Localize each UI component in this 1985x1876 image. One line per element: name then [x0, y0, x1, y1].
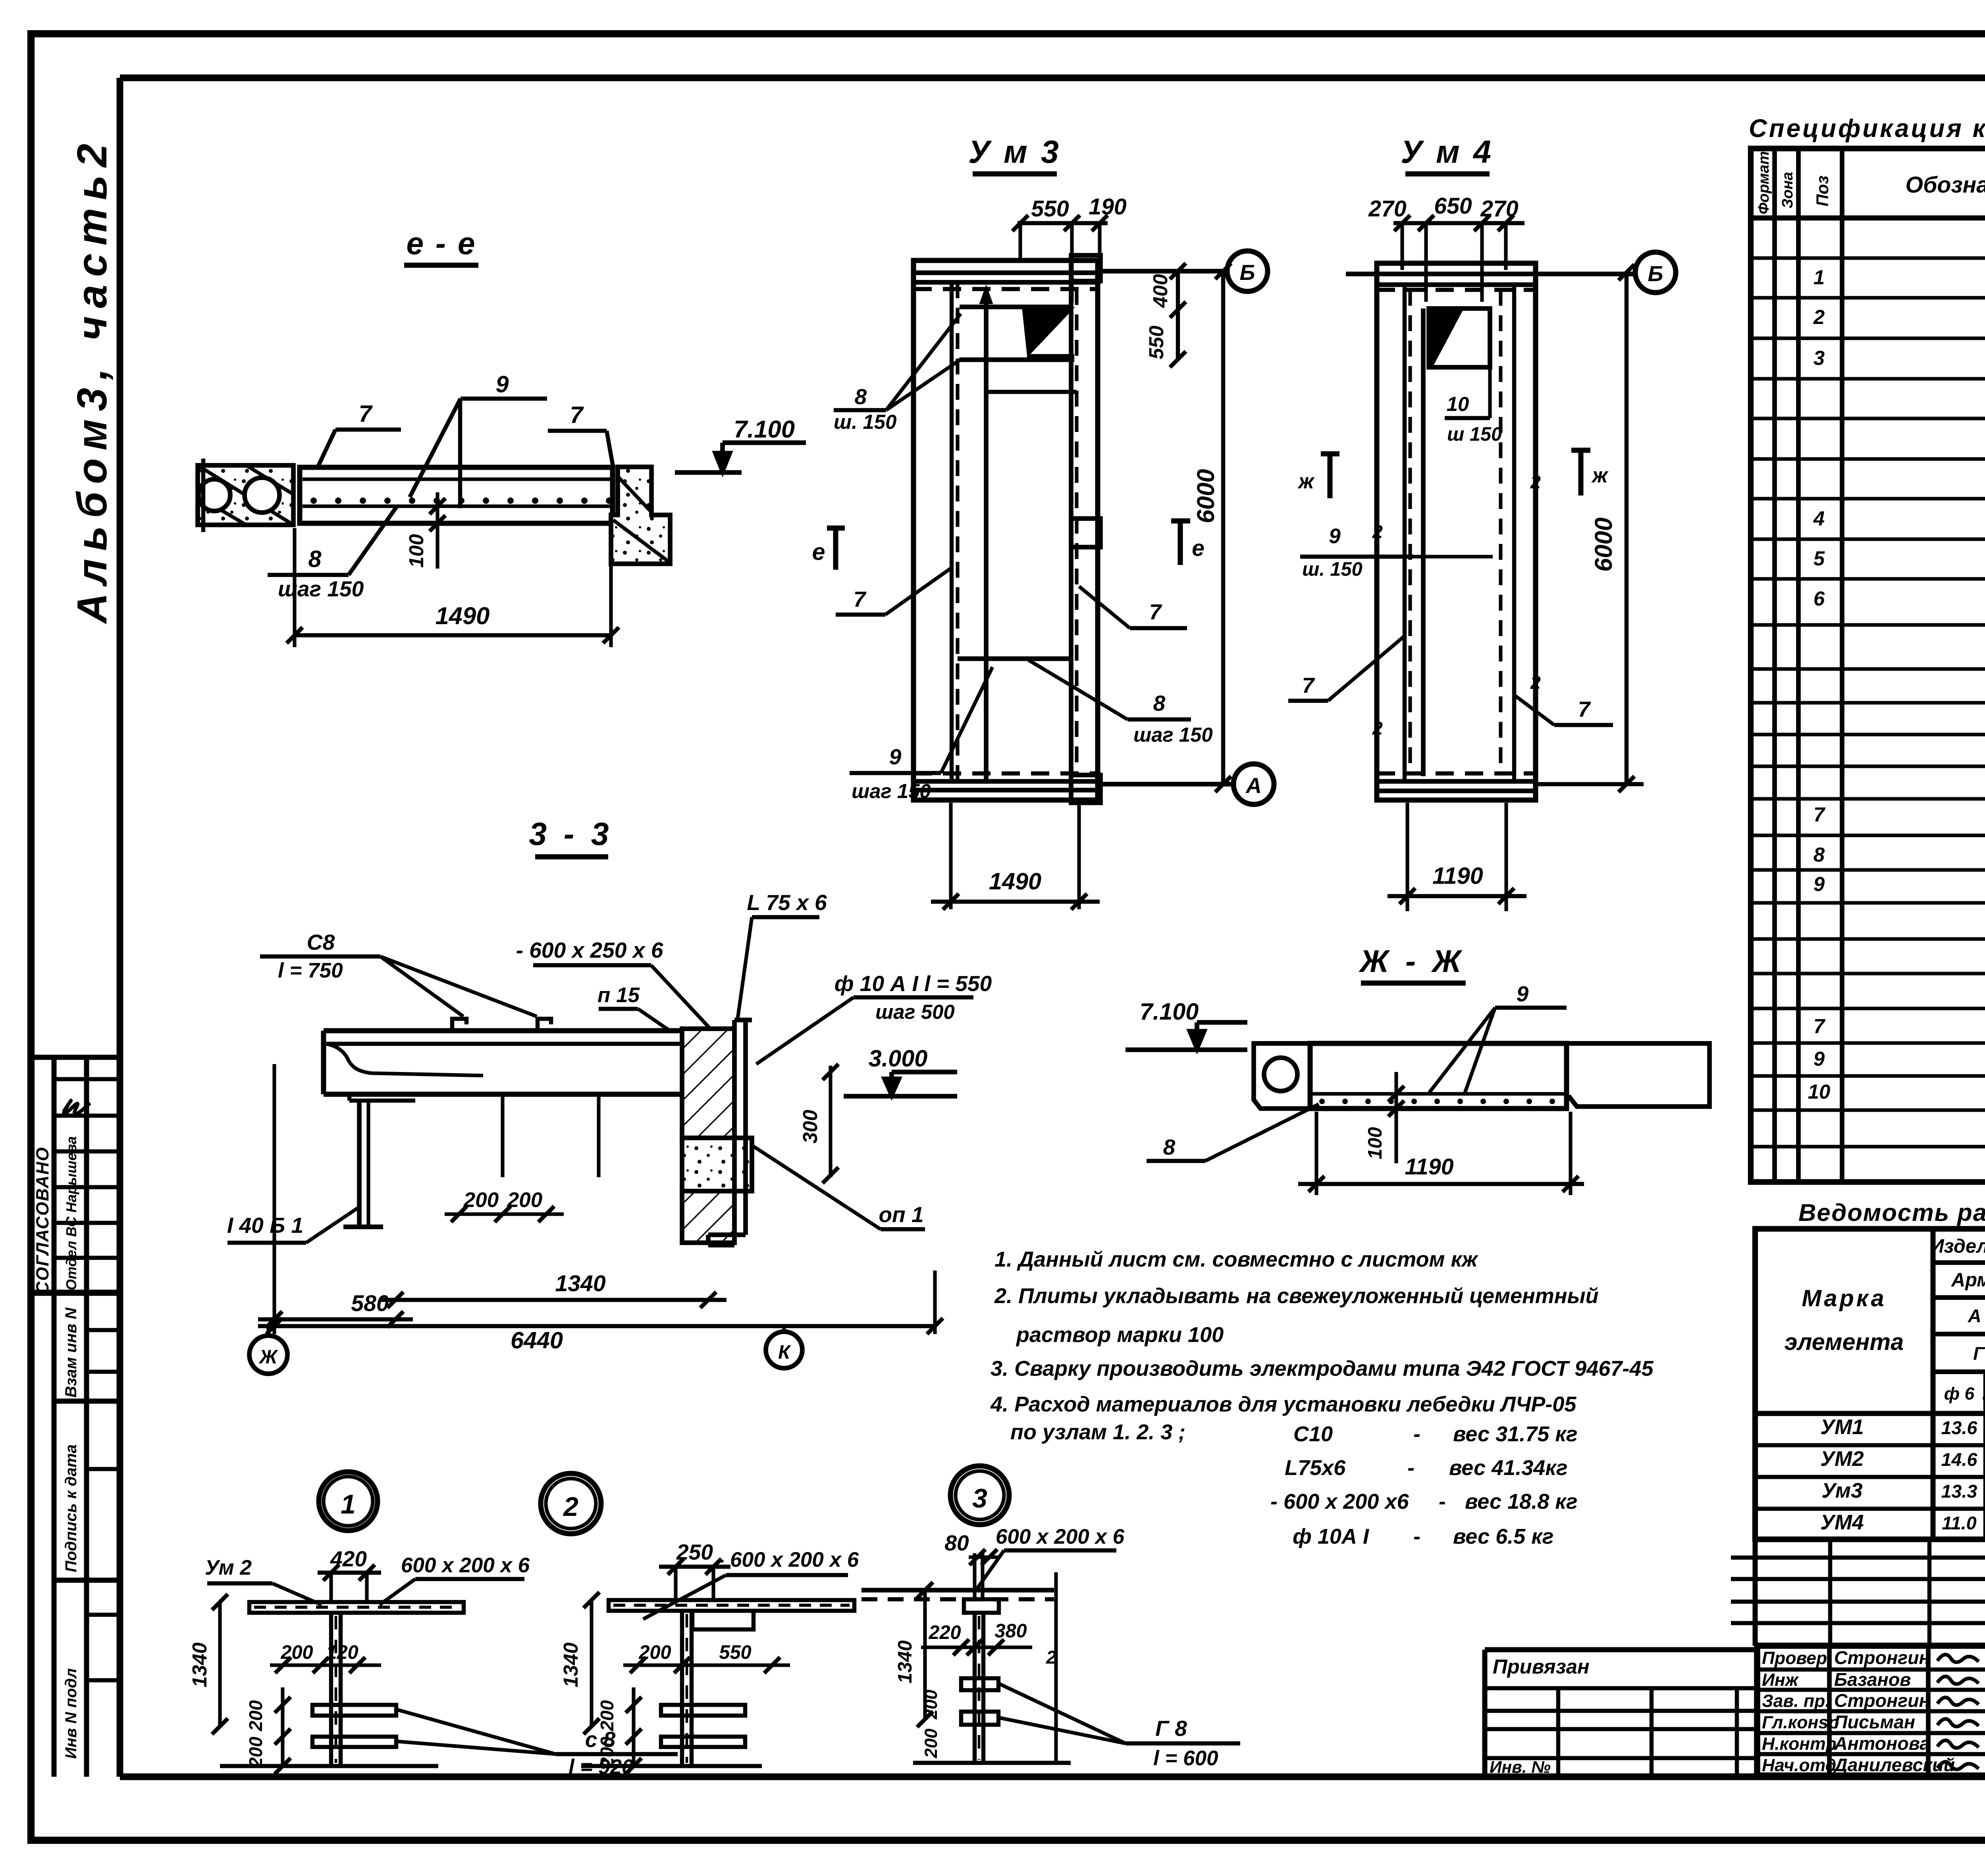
left margin stamp row divider [54, 1077, 120, 1081]
svg-text:3.000: 3.000 [869, 1045, 928, 1072]
svg-text:1340: 1340 [894, 1641, 916, 1683]
specification table column line [1772, 148, 1777, 1182]
specification table row line [1751, 1041, 1985, 1045]
title block column line [1926, 1646, 1931, 1776]
specification table frame [1751, 148, 1985, 1182]
specification table row line [1751, 296, 1985, 299]
svg-text:Провер.: Провер. [1762, 1648, 1832, 1668]
zh-zh right continuing slab [1569, 1043, 1709, 1107]
detail circle 2 [541, 1473, 601, 1534]
3-3 anchor rods below slab [501, 1096, 504, 1177]
svg-text:8: 8 [1153, 691, 1166, 715]
Um3 middle horizontal line [958, 656, 1071, 661]
specification table row line [1751, 833, 1985, 837]
svg-text:600 x 200 x 6: 600 x 200 x 6 [401, 1554, 530, 1577]
svg-text:7.100: 7.100 [734, 416, 795, 443]
detail 3 anchor plate lower [961, 1712, 998, 1725]
detail 2 anchor plate upper [661, 1705, 745, 1716]
detail 2 bracket under plate [692, 1611, 754, 1629]
svg-text:550: 550 [1145, 326, 1168, 359]
svg-text:3: 3 [1813, 347, 1825, 369]
svg-text:120: 120 [326, 1642, 358, 1663]
detail 3 right extension line [1054, 1572, 1058, 1763]
svg-text:С10: С10 [1293, 1422, 1333, 1446]
specification table row line [1751, 764, 1985, 768]
svg-text:Данилевский: Данилевский [1833, 1755, 1955, 1775]
section mark e between views [833, 528, 838, 570]
e-e slab top flange line [303, 477, 610, 481]
svg-text:220: 220 [928, 1622, 961, 1643]
specification table row line [1751, 537, 1985, 541]
title block row line [1757, 1668, 1985, 1672]
Um3 dim 1490 bottom [949, 803, 952, 909]
detail 3 anchor plate upper [961, 1678, 998, 1690]
Um3 right channel middle block [1071, 519, 1100, 547]
dim 100 vertical e-e [436, 492, 439, 569]
svg-text:оп 1: оп 1 [879, 1202, 923, 1227]
svg-text:8: 8 [1813, 843, 1825, 866]
svg-text:е - е: е - е [407, 226, 477, 261]
Um3 bottom band lines [913, 779, 1098, 784]
svg-text:Зона: Зона [1779, 172, 1796, 208]
Um4 section mark zh right [1578, 450, 1584, 496]
svg-text:Арматура класса: Арматура класса [1951, 1269, 1985, 1291]
vedomost marka column line [1931, 1229, 1936, 1539]
svg-text:Спецификация к монолитным: Спецификация к монолитным участкам Ум1 ÷… [1749, 114, 1985, 143]
title block row line [1757, 1688, 1985, 1692]
svg-text:l = 750: l = 750 [278, 959, 343, 982]
svg-text:ж: ж [1297, 470, 1315, 493]
Um3 center rebar vertical [984, 294, 989, 781]
svg-text:Ум3: Ум3 [1821, 1479, 1862, 1502]
Um3 circle B [1227, 251, 1268, 291]
svg-text:СОГЛАСОВАНО: СОГЛАСОВАНО [33, 1147, 52, 1294]
zh-zh left block with circle [1254, 1043, 1310, 1109]
svg-text:3: 3 [972, 1484, 987, 1514]
svg-text:7: 7 [1813, 1015, 1826, 1037]
svg-text:-: - [1413, 1525, 1420, 1548]
svg-text:7: 7 [1813, 803, 1826, 826]
title block outline [1757, 1646, 1985, 1776]
specification table row line [1751, 901, 1985, 904]
signature squiggle 4 [1937, 1740, 1979, 1748]
svg-text:раствор марки 100: раствор марки 100 [1016, 1323, 1224, 1347]
Um4 left channel verticals [1403, 285, 1407, 781]
svg-text:Стронгин: Стронгин [1834, 1647, 1930, 1668]
svg-text:650: 650 [1434, 193, 1472, 219]
svg-text:Базанов: Базанов [1834, 1669, 1911, 1690]
3-3 right extension line [933, 1271, 937, 1334]
svg-text:3 - 3: 3 - 3 [529, 816, 613, 852]
svg-text:-: - [1413, 1422, 1420, 1446]
vedomost data row line [1755, 1475, 1985, 1479]
title block row line [1757, 1731, 1985, 1735]
left margin stamp vertical line c [52, 1293, 57, 1777]
svg-text:Письман: Письман [1834, 1712, 1915, 1732]
svg-text:К: К [778, 1342, 791, 1363]
svg-text:Б: Б [1648, 261, 1663, 286]
left margin stamp row divider [54, 1185, 120, 1189]
zh-zh slab rebar dots [1319, 1099, 1325, 1104]
specification table row line [1751, 416, 1985, 420]
left margin small box divider [87, 1370, 120, 1374]
svg-text:270: 270 [1368, 196, 1407, 222]
3-3 dim 300 [829, 1066, 832, 1177]
svg-text:1340: 1340 [555, 1271, 605, 1296]
svg-text:Гл.конsр: Гл.конsр [1762, 1713, 1839, 1732]
vedomost header row4 line [1933, 1369, 1985, 1374]
Um4 dim 1190 [1405, 803, 1409, 911]
Um3 dashed line top [913, 287, 1098, 291]
svg-text:11.0: 11.0 [1942, 1513, 1976, 1533]
specification table row line [1751, 937, 1985, 941]
svg-text:1: 1 [1813, 266, 1825, 289]
3-3 right hatched column upper [682, 1029, 734, 1138]
inner drawing frame left line [117, 78, 123, 1777]
3-3 anchor loops above slab [452, 1019, 466, 1031]
svg-text:Поз: Поз [1813, 175, 1832, 206]
svg-text:14.6: 14.6 [1941, 1449, 1978, 1470]
vedomost header row2 line [1933, 1295, 1985, 1300]
detail 1 dim 1340 vertical [218, 1602, 222, 1726]
svg-text:4. Расход материалов для ус: 4. Расход материалов для установки лебед… [990, 1392, 1576, 1416]
Um3 lower inset line [986, 390, 1077, 394]
3-3 axis Zh extension line [272, 1064, 276, 1334]
svg-text:6440: 6440 [511, 1327, 563, 1353]
vedomost table frame [1755, 1229, 1985, 1539]
Um3 column outline [913, 260, 1098, 800]
e-e hollow core slab left block hatched [198, 465, 293, 525]
svg-text:7: 7 [1302, 673, 1315, 698]
svg-text:550: 550 [1031, 196, 1069, 222]
svg-text:13.3: 13.3 [1941, 1481, 1977, 1502]
svg-text:Инв N подл: Инв N подл [62, 1668, 80, 1759]
specification table row line [1751, 1006, 1985, 1010]
svg-text:А: А [1245, 773, 1262, 798]
svg-text:1340: 1340 [559, 1643, 582, 1687]
svg-text:элемента: элемента [1785, 1328, 1904, 1355]
svg-text:п 15: п 15 [597, 983, 640, 1007]
3-3 channel angle verticals [732, 1020, 737, 1245]
svg-text:1190: 1190 [1432, 862, 1483, 889]
left margin divider below podpis [54, 1578, 120, 1583]
detail 3 slab top line [861, 1588, 1054, 1593]
svg-text:Нач.отд: Нач.отд [1762, 1756, 1836, 1775]
Um4 dim 6000 [1625, 272, 1628, 784]
svg-text:8: 8 [308, 546, 321, 572]
specification table row line [1751, 868, 1985, 871]
signature squiggle 1 [1937, 1676, 1979, 1684]
svg-text:Б: Б [1239, 260, 1255, 285]
detail 1 ground line [220, 1764, 438, 1768]
zh-zh dim 100 [1394, 1072, 1398, 1163]
svg-text:шаг 150: шаг 150 [852, 780, 931, 802]
3-3 right hatched column lower [682, 1191, 734, 1243]
3-3 circle Ж axis [266, 1326, 270, 1337]
svg-text:200: 200 [597, 1737, 617, 1768]
svg-text:Обозначение: Обозначение [1906, 172, 1985, 198]
Um3 left channel vertical solid [950, 282, 954, 781]
vedomost data row line [1755, 1443, 1985, 1447]
svg-text:Марка: Марка [1802, 1285, 1886, 1311]
detail 2 vertical rod [680, 1611, 684, 1766]
Um4 leader 9 to channel [1413, 555, 1493, 558]
svg-text:по узлам 1. 2. 3 ;: по узлам 1. 2. 3 ; [1010, 1420, 1185, 1444]
3-3 slab left step [347, 1094, 351, 1101]
svg-text:300: 300 [799, 1110, 821, 1143]
Um4 black triangle box [1429, 308, 1490, 367]
Um3 dim 6000 [1221, 271, 1225, 784]
svg-text:- 600 x 250 x 6: - 600 x 250 x 6 [516, 938, 663, 962]
e-e hollow core circle 1 [198, 479, 230, 511]
specification table row line [1751, 1074, 1985, 1078]
left margin stamp row divider [54, 1221, 120, 1225]
svg-text:100: 100 [1364, 1127, 1386, 1159]
detail 2 anchor plate lower [661, 1737, 745, 1747]
svg-text:Зав. пр.: Зав. пр. [1762, 1691, 1830, 1711]
svg-text:200: 200 [921, 1728, 941, 1758]
svg-text:7: 7 [570, 401, 584, 428]
Um3 right channel verticals [1069, 260, 1073, 800]
svg-text:2. Плиты укладывать на свеже: 2. Плиты укладывать на свежеуложенный це… [994, 1284, 1599, 1308]
vedomost data row line [1755, 1507, 1985, 1511]
mini grid below vedomost [1731, 1556, 1985, 1560]
svg-text:7: 7 [1578, 697, 1591, 721]
svg-text:1490: 1490 [436, 602, 490, 630]
left margin stamp vertical line a [52, 1057, 57, 1293]
e-e slab rebar dots [310, 497, 317, 504]
Um4 dashed line top [1377, 288, 1536, 292]
e-e main slab outline [300, 467, 613, 523]
svg-text:2: 2 [1813, 306, 1825, 328]
left margin divider below vzam [54, 1399, 120, 1404]
svg-text:УМ2: УМ2 [1820, 1447, 1864, 1471]
svg-text:7.100: 7.100 [1140, 998, 1199, 1025]
left margin small box divider [87, 1467, 120, 1471]
svg-text:Формат: Формат [1755, 151, 1772, 214]
svg-text:ш. 150: ш. 150 [834, 411, 896, 433]
detail 1 top plate [249, 1602, 464, 1613]
3-3 circle К axis [782, 1326, 786, 1334]
vedomost header row1 line [1933, 1260, 1985, 1265]
detail 1 vertical rod [329, 1613, 333, 1766]
svg-text:- 600 x 200 x 6: - 600 x 200 x 6 [717, 1548, 859, 1571]
3-3 slab outline [324, 1028, 706, 1033]
Um3 section mark e with T [1178, 521, 1183, 565]
detail 1 anchor plate upper [312, 1705, 396, 1716]
3-3 angle bottom hook [708, 1232, 746, 1237]
e-e hollow core circle 2 [245, 478, 279, 513]
svg-text:9: 9 [1813, 873, 1825, 895]
svg-text:200: 200 [245, 1700, 266, 1731]
svg-text:Привязан: Привязан [1493, 1655, 1590, 1678]
specification table row line [1751, 377, 1985, 380]
inner drawing frame bottom line [120, 1774, 1985, 1780]
Um3 left channel vertical dashed [956, 282, 959, 781]
svg-text:е: е [1192, 536, 1204, 561]
svg-text:Отдел ВС Нарышева: Отдел ВС Нарышева [63, 1136, 79, 1290]
detail 3 ground line [913, 1761, 1071, 1765]
left margin small box divider [87, 1678, 120, 1682]
Um4 column outline [1377, 263, 1536, 800]
left margin stamp heavy divider [31, 1290, 120, 1296]
svg-text:шаг 500: шаг 500 [875, 1001, 955, 1023]
svg-text:Итого: Итого [1982, 1384, 1985, 1404]
vedomost header row3 line [1933, 1332, 1985, 1336]
svg-text:Ж - Ж: Ж - Ж [1358, 944, 1465, 979]
zh-zh dim 1190 [1314, 1112, 1318, 1195]
svg-text:е: е [812, 538, 825, 565]
svg-text:С8: С8 [307, 930, 335, 954]
left margin stamp grid top line [31, 1055, 120, 1060]
Um4 section mark zh left [1328, 454, 1333, 498]
svg-text:-: - [1439, 1490, 1446, 1514]
privyazan box columns [1556, 1688, 1560, 1777]
svg-text:Г 8: Г 8 [1155, 1716, 1187, 1741]
specification table row line [1751, 701, 1985, 704]
zh-zh main slab [1310, 1043, 1567, 1109]
svg-text:Стронгин: Стронгин [1834, 1690, 1930, 1711]
svg-text:1190: 1190 [1405, 1154, 1453, 1180]
svg-text:УМ1: УМ1 [1820, 1415, 1864, 1439]
svg-text:2: 2 [1372, 718, 1383, 738]
svg-text:5: 5 [1813, 547, 1825, 570]
svg-text:Альбом3, часть2: Альбом3, часть2 [69, 136, 116, 625]
detail circle 3 [950, 1466, 1009, 1525]
specification table row line [1751, 972, 1985, 975]
specification table header bottom [1751, 216, 1985, 221]
detail 2 top plate [609, 1600, 854, 1611]
svg-text:7: 7 [854, 587, 867, 611]
Um3 right channel top block [1071, 255, 1100, 281]
title block column line [1827, 1646, 1832, 1776]
Um3 right channel bottom block [1071, 775, 1100, 803]
svg-text:550: 550 [719, 1642, 751, 1663]
svg-text:ф 10А I: ф 10А I [1293, 1525, 1369, 1548]
3-3 concrete pocket [682, 1138, 752, 1191]
svg-text:6: 6 [1813, 587, 1825, 610]
svg-text:ш. 150: ш. 150 [1302, 559, 1363, 580]
svg-text:Подпись к дата: Подпись к дата [62, 1444, 80, 1572]
svg-text:6000: 6000 [1192, 469, 1220, 523]
svg-text:ф 10 А I l = 550: ф 10 А I l = 550 [834, 971, 992, 996]
svg-text:10: 10 [1447, 393, 1469, 415]
left margin small box divider [87, 1613, 120, 1617]
svg-text:Инж: Инж [1762, 1670, 1799, 1690]
detail 3 dim 1340 vertical [923, 1590, 927, 1719]
svg-text:13.6: 13.6 [1941, 1417, 1978, 1438]
svg-text:4: 4 [1813, 507, 1825, 530]
svg-text:200: 200 [921, 1689, 941, 1720]
svg-text:9: 9 [1329, 524, 1341, 548]
svg-text:9: 9 [889, 744, 902, 769]
dim 1490 e-e [293, 528, 296, 647]
svg-text:Изделия армотурные: Изделия армотурные [1930, 1236, 1985, 1257]
detail 3 plate block [964, 1599, 999, 1613]
Um3 right dims 400 550 [1176, 271, 1180, 359]
svg-text:L75x6: L75x6 [1285, 1456, 1346, 1480]
svg-text:200: 200 [597, 1700, 617, 1731]
svg-text:8: 8 [855, 384, 867, 409]
svg-text:100: 100 [405, 534, 428, 568]
vedomost subcolumn line [1983, 1372, 1985, 1539]
specification table row line [1751, 577, 1985, 580]
svg-text:9: 9 [495, 371, 509, 397]
svg-text:ж: ж [1591, 464, 1609, 487]
signature squiggle 0 [1937, 1654, 1979, 1662]
inner drawing frame top line [120, 75, 1985, 81]
svg-text:вес 31.75 кг: вес 31.75 кг [1453, 1422, 1578, 1446]
Um4 bottom band lines [1377, 779, 1536, 784]
privyazan box rows [1485, 1686, 1757, 1690]
Um4 circle B [1635, 252, 1676, 293]
svg-text:Ж: Ж [258, 1346, 278, 1368]
e-e right support block hatched [611, 467, 670, 564]
title block row line [1757, 1709, 1985, 1713]
Um4 bottom dashed [1377, 771, 1536, 775]
svg-text:вес 18.8 кг: вес 18.8 кг [1465, 1490, 1578, 1514]
svg-text:ш 150: ш 150 [1447, 424, 1502, 445]
Um4 right channel verticals [1499, 290, 1502, 773]
specification table row line [1751, 667, 1985, 671]
specification table row line [1751, 797, 1985, 800]
specification table column line [1796, 148, 1801, 1182]
svg-text:шаг 150: шаг 150 [278, 576, 364, 601]
svg-text:шаг 150: шаг 150 [1133, 723, 1213, 746]
svg-text:80: 80 [944, 1531, 969, 1555]
left margin stamp vertical line b [84, 1057, 89, 1777]
svg-text:200: 200 [280, 1642, 313, 1663]
svg-text:Антонова: Антонова [1834, 1733, 1930, 1754]
detail 2 dim 1340 vertical [590, 1600, 593, 1726]
svg-text:Инв. №: Инв. № [1490, 1758, 1551, 1776]
svg-text:Н.контр: Н.контр [1762, 1734, 1837, 1754]
detail 2 ground line [581, 1764, 762, 1768]
svg-text:У м 4: У м 4 [1401, 134, 1494, 170]
specification table column line [1840, 148, 1844, 1182]
specification table row line [1751, 1108, 1985, 1112]
svg-text:1490: 1490 [989, 868, 1041, 895]
Um3 inset box bottom lines [1027, 354, 1074, 358]
specification table row line [1751, 1145, 1985, 1148]
detail 3 rod protrusion above slab [973, 1553, 976, 1599]
Um3 circle A [1233, 764, 1274, 804]
Um3 bottom dashed line [913, 771, 1098, 775]
svg-text:580: 580 [351, 1291, 389, 1316]
svg-text:I 40 Б 1: I 40 Б 1 [227, 1213, 303, 1238]
svg-text:1. Данный лист см. совместно: 1. Данный лист см. совместно с листом кж [994, 1247, 1479, 1271]
detail 3 vertical rod [973, 1613, 977, 1763]
left margin small box divider [87, 1328, 120, 1332]
svg-text:7: 7 [358, 400, 373, 427]
svg-text:600 x 200 x 6: 600 x 200 x 6 [996, 1525, 1125, 1548]
svg-text:200: 200 [463, 1188, 499, 1212]
detail 1 anchor plate lower [312, 1737, 396, 1747]
Um3 inset box top line [960, 305, 1072, 309]
svg-text:10: 10 [1808, 1080, 1831, 1103]
Um3 line to circle B [1098, 269, 1227, 274]
svg-text:380: 380 [994, 1620, 1027, 1642]
signature squiggle 3 [1937, 1719, 1979, 1726]
svg-text:ф 6: ф 6 [1944, 1384, 1975, 1404]
svg-text:-: - [1407, 1456, 1415, 1480]
svg-text:2: 2 [1046, 1647, 1056, 1668]
specification table row line [1751, 256, 1985, 260]
Um3 inset box black triangle [1023, 308, 1072, 355]
svg-text:400: 400 [1149, 274, 1172, 308]
svg-text:1: 1 [341, 1490, 356, 1519]
specification table row line [1751, 623, 1985, 627]
